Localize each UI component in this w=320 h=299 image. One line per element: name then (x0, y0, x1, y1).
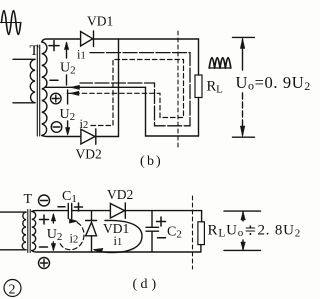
current path i1 long-dash loop (b) (80, 53, 190, 126)
wire: center tap with arrow (b) (45, 85, 146, 89)
svg-text:C2: C2 (167, 225, 182, 241)
svg-text:U2: U2 (60, 61, 76, 77)
diode VD2 (b) (81, 129, 119, 144)
polarity - mid (b) (50, 79, 58, 81)
svg-text:): ) (152, 277, 157, 292)
svg-text:): ) (156, 154, 161, 169)
axis dashed vertical (d) (192, 196, 194, 269)
svg-text:U2: U2 (47, 227, 63, 243)
circled plus bottom (d) (39, 258, 50, 269)
circled minus at secondary bottom (b) (51, 122, 62, 133)
transformer secondary winding (b) (42, 42, 47, 136)
arrow on i2 path (b) (70, 91, 79, 95)
wire: secondary top tap to VD1 (b) (42, 39, 80, 42)
svg-text:(: ( (140, 154, 145, 169)
capacitor C2 (d) (146, 211, 159, 252)
svg-text:RL: RL (207, 79, 224, 96)
wire: diode junction vertical (b) (118, 39, 120, 137)
wire: bottom rail (d) (32, 251, 201, 253)
svg-text:i2: i2 (70, 232, 79, 246)
wire: return path down-right to RL (b) (146, 87, 199, 136)
svg-text:T: T (24, 192, 33, 207)
measurement line Uo (d) (224, 211, 261, 250)
circled figure number 2 (4, 280, 21, 298)
polarity - at C2 (d) (158, 237, 166, 239)
wire: RL branch vertical (b) (198, 39, 200, 75)
polarity - secondary bottom (d) (40, 246, 48, 248)
diode VD2 (d) (110, 203, 125, 218)
svg-text:d: d (141, 277, 148, 292)
svg-text:i1: i1 (114, 234, 123, 248)
transformer secondary winding (d) (32, 212, 36, 251)
resistor RL (d) (198, 211, 205, 252)
ac source sine waveform (1, 11, 22, 35)
svg-text:Uo=0. 9U2: Uo=0. 9U2 (236, 73, 311, 93)
transformer core (d) (28, 210, 30, 253)
svg-text:i1: i1 (77, 48, 86, 62)
svg-text:RLUo≑2. 8U2: RLUo≑2. 8U2 (208, 223, 302, 240)
transformer primary winding (d) (0, 212, 26, 250)
voltage arrow U2 lower (b) (65, 90, 69, 135)
voltage arrow U2 upper (b) (64, 42, 68, 85)
current path i2 short-dash loop (b) (67, 60, 184, 126)
diode VD1 (b) (81, 31, 199, 47)
circled minus top (d) (39, 195, 50, 206)
circled plus at center tap (b) (51, 93, 62, 104)
svg-text:VD2: VD2 (107, 187, 133, 202)
transformer core (b) (37, 45, 39, 136)
voltage arrow U2 (d) (51, 214, 55, 251)
resistor RL (b) (195, 75, 202, 98)
wire: C1 to VD2 and on to RL (d) (72, 210, 110, 212)
rectified waveform humps (b) (209, 58, 231, 68)
polarity + at C1 right (d) (75, 203, 83, 211)
svg-text:VD1: VD1 (87, 14, 113, 29)
svg-text:C1: C1 (62, 189, 77, 205)
wire: secondary top to C1 (d) (32, 210, 68, 213)
capacitor C1 (d) (68, 204, 71, 219)
svg-text:2: 2 (9, 283, 16, 298)
polarity - at C1 left (d) (58, 206, 65, 208)
svg-text:b: b (147, 154, 154, 169)
transformer primary winding (b) (13, 59, 35, 103)
axis dashed vertical (b) (177, 31, 179, 150)
svg-text:VD2: VD2 (76, 147, 102, 162)
polarity + at C2 (d) (157, 217, 166, 226)
diode VD1 vertical (d) (86, 211, 97, 252)
current loop i2 dashed with arrow (d) (60, 219, 85, 250)
current loop i1 oval with arrow (d) (94, 220, 143, 252)
svg-text:(: ( (133, 277, 138, 292)
polarity + at secondary top (b) (49, 41, 59, 51)
polarity + secondary top (d) (40, 215, 49, 224)
measurement line Uo (b) (233, 37, 255, 137)
wire: secondary bottom tap to VD2 (b) (42, 136, 81, 137)
